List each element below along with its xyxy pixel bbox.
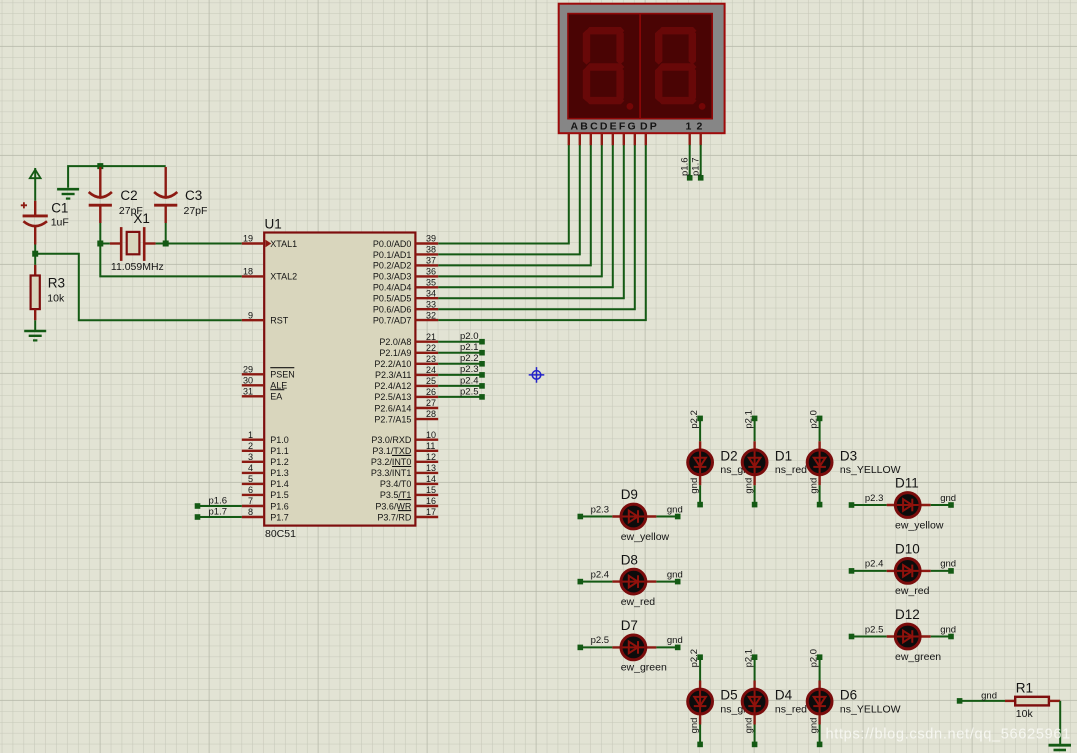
wire P0.5 to display pin 5 xyxy=(438,145,624,298)
svg-text:p2.1: p2.1 xyxy=(743,410,754,429)
wire P0.3 to display pin 3 xyxy=(438,145,602,277)
svg-text:p2.2: p2.2 xyxy=(689,410,700,429)
svg-text:p2.0: p2.0 xyxy=(808,410,819,429)
svg-text:11.059MHz: 11.059MHz xyxy=(111,261,164,273)
wire junction to U1 RST xyxy=(35,254,242,321)
svg-text:ALE: ALE xyxy=(270,381,287,391)
svg-text:23: 23 xyxy=(426,354,436,364)
svg-text:P0.7/AD7: P0.7/AD7 xyxy=(373,315,412,325)
svg-text:D2: D2 xyxy=(720,448,737,463)
svg-text:P3.1/TXD: P3.1/TXD xyxy=(372,446,412,456)
svg-text:p2.0: p2.0 xyxy=(808,649,819,668)
svg-text:25: 25 xyxy=(426,376,436,386)
pin 3 P1.2 xyxy=(242,461,264,463)
svg-text:C1: C1 xyxy=(51,200,68,215)
display left digit segments xyxy=(583,27,634,110)
svg-text:15: 15 xyxy=(426,485,436,495)
svg-text:29: 29 xyxy=(243,365,253,375)
svg-text:39: 39 xyxy=(426,234,436,244)
svg-text:P1.0: P1.0 xyxy=(270,435,289,445)
svg-text:p2.5: p2.5 xyxy=(460,386,479,397)
display pins (red stubs) xyxy=(569,133,701,145)
svg-text:p2.4: p2.4 xyxy=(865,559,884,570)
ground (below R3) xyxy=(24,331,46,340)
LED D8 ew_red xyxy=(580,581,612,583)
svg-text:4: 4 xyxy=(248,463,253,473)
svg-text:P0.6/AD6: P0.6/AD6 xyxy=(373,305,412,315)
svg-text:p2.3: p2.3 xyxy=(591,504,610,515)
svg-text:gnd: gnd xyxy=(940,493,956,504)
svg-text:17: 17 xyxy=(426,507,436,517)
pin 12 P3.2/INT0 xyxy=(415,461,438,463)
svg-text:9: 9 xyxy=(248,310,253,320)
svg-text:24: 24 xyxy=(426,365,436,375)
svg-text:D7: D7 xyxy=(621,618,638,633)
svg-text:28: 28 xyxy=(426,409,436,419)
terminal p2.4 xyxy=(479,383,485,389)
svg-text:34: 34 xyxy=(426,288,436,298)
svg-text:P2.2/A10: P2.2/A10 xyxy=(374,359,411,369)
LED D1 ns_red xyxy=(754,418,756,441)
svg-text:gnd: gnd xyxy=(667,635,683,646)
svg-text:p2.5: p2.5 xyxy=(865,624,884,635)
svg-text:P2.5/A13: P2.5/A13 xyxy=(374,392,411,402)
LED D7 ew_green xyxy=(580,646,612,648)
svg-text:gnd: gnd xyxy=(808,718,819,734)
junction top rail / C2 xyxy=(97,163,103,169)
svg-text:p2.2: p2.2 xyxy=(689,649,700,668)
wire C2 junction to U1 XTAL2 xyxy=(100,244,242,277)
svg-text:P3.4/T0: P3.4/T0 xyxy=(380,479,412,489)
svg-text:P3.3/INT1: P3.3/INT1 xyxy=(371,468,412,478)
svg-text:gnd: gnd xyxy=(689,478,700,494)
svg-text:ns_YELLOW: ns_YELLOW xyxy=(840,464,901,476)
crystal X1 xyxy=(110,227,156,261)
svg-text:P2.3/A11: P2.3/A11 xyxy=(375,370,411,380)
svg-text:ew_yellow: ew_yellow xyxy=(621,531,670,543)
pin 30 ALE xyxy=(242,384,264,386)
resistor R3 10k xyxy=(34,254,36,265)
pin 11 P3.1/TXD xyxy=(415,450,438,452)
wire C1 to junction xyxy=(34,245,36,254)
svg-text:16: 16 xyxy=(426,496,436,506)
svg-text:p2.1: p2.1 xyxy=(743,649,754,668)
LED D3 ns_YELLOW xyxy=(819,418,821,441)
junction C3/X1 (XTAL1 net... wait XTAL2) xyxy=(163,241,169,247)
svg-text:P3.5/T1: P3.5/T1 xyxy=(380,490,412,500)
wire U1 p1.7 to terminal xyxy=(198,516,242,518)
pin 7 P1.6 xyxy=(242,505,264,507)
op... microcontroller U1 80C51 body xyxy=(264,233,415,526)
svg-text:ew_green: ew_green xyxy=(895,651,941,663)
pin 34 P0.5/AD5 xyxy=(415,297,438,299)
svg-text:10k: 10k xyxy=(1016,708,1034,720)
wire P0.0 to display pin 0 xyxy=(438,145,569,244)
wire P0.7 to display pin 7 xyxy=(438,145,646,320)
wire top rail (gnd - C2 - C3) xyxy=(68,166,166,188)
svg-text:ew_green: ew_green xyxy=(621,662,667,674)
svg-text:37: 37 xyxy=(426,256,436,266)
power symbol (VCC arrow) xyxy=(30,168,41,201)
svg-text:35: 35 xyxy=(426,278,436,288)
svg-text:P2.7/A15: P2.7/A15 xyxy=(374,414,411,424)
svg-text:gnd: gnd xyxy=(689,718,700,734)
svg-text:p2.4: p2.4 xyxy=(460,375,479,386)
svg-text:P2.6/A14: P2.6/A14 xyxy=(374,403,411,413)
svg-text:P1.3: P1.3 xyxy=(270,468,289,478)
wire P2.5 to terminal xyxy=(438,396,482,398)
svg-text:https://blog.csdn.net/qq_56625: https://blog.csdn.net/qq_56625961 xyxy=(826,727,1071,743)
pin 39 P0.0/AD0 xyxy=(415,242,438,244)
svg-text:PSEN: PSEN xyxy=(270,370,295,380)
svg-text:ns_red: ns_red xyxy=(775,703,807,715)
pin 24 P2.3/A11 xyxy=(415,374,438,376)
pin 15 P3.5/T1 xyxy=(415,494,438,496)
svg-text:P2.1/A9: P2.1/A9 xyxy=(379,348,411,358)
pin 28 P2.7/A15 xyxy=(415,418,438,420)
junction C2/X1 (XTAL1 net) xyxy=(97,241,103,247)
svg-text:D9: D9 xyxy=(621,487,638,502)
svg-text:U1: U1 xyxy=(265,216,282,231)
wire P0.6 to display pin 6 xyxy=(438,145,635,309)
svg-text:11: 11 xyxy=(426,441,435,451)
svg-text:6: 6 xyxy=(248,485,253,495)
pin 17 P3.7/RD xyxy=(415,516,438,518)
svg-text:P1.4: P1.4 xyxy=(270,479,289,489)
pin 16 P3.6/WR xyxy=(415,505,438,507)
wire U1 p1.6 to terminal xyxy=(198,505,242,507)
svg-text:D6: D6 xyxy=(840,688,857,703)
pin 8 P1.7 xyxy=(242,516,264,518)
svg-text:80C51: 80C51 xyxy=(265,528,296,540)
svg-text:D4: D4 xyxy=(775,688,793,703)
wire P0.1 to display pin 1 xyxy=(438,145,580,255)
pin 23 P2.2/A10 xyxy=(415,363,438,365)
wire gnd terminal to R1 xyxy=(960,700,1005,702)
wire display pin2 to p1.7 terminal xyxy=(700,145,702,178)
LED D10 ew_red xyxy=(852,570,887,572)
pin 36 P0.3/AD3 xyxy=(415,275,438,277)
terminal gnd (R1 input) xyxy=(957,698,963,704)
wire P2.3 to terminal xyxy=(438,374,482,376)
svg-text:27pF: 27pF xyxy=(184,205,208,217)
pin 14 P3.4/T0 xyxy=(415,483,438,485)
pin 2 P1.1 xyxy=(242,450,264,452)
svg-text:3: 3 xyxy=(248,452,253,462)
terminal p1.7 (display side) xyxy=(698,175,704,181)
svg-text:p2.2: p2.2 xyxy=(460,353,479,364)
svg-text:ew_red: ew_red xyxy=(621,596,656,608)
svg-text:P3.0/RXD: P3.0/RXD xyxy=(371,435,412,445)
svg-text:RST: RST xyxy=(270,316,289,326)
svg-text:2: 2 xyxy=(248,441,253,451)
svg-text:P2.0/A8: P2.0/A8 xyxy=(379,337,411,347)
svg-text:p2.4: p2.4 xyxy=(591,569,610,580)
svg-text:p2.5: p2.5 xyxy=(591,635,610,646)
svg-text:R3: R3 xyxy=(48,276,65,291)
svg-text:7: 7 xyxy=(248,496,253,506)
pin 32 P0.7/AD7 xyxy=(415,319,438,321)
LED D4 ns_red xyxy=(754,657,756,680)
svg-text:D1: D1 xyxy=(775,448,792,463)
LED D12 ew_green xyxy=(852,636,887,638)
wire P2.2 to terminal xyxy=(438,363,482,365)
svg-text:1uF: 1uF xyxy=(51,217,69,229)
pin 13 P3.3/INT1 xyxy=(415,472,438,474)
svg-text:ns_red: ns_red xyxy=(775,464,807,476)
svg-text:ew_yellow: ew_yellow xyxy=(895,519,944,531)
svg-text:p1.6: p1.6 xyxy=(679,158,690,177)
svg-text:36: 36 xyxy=(426,267,436,277)
svg-text:XTAL2: XTAL2 xyxy=(270,272,297,282)
svg-text:P0.1/AD1: P0.1/AD1 xyxy=(373,250,412,260)
wire R1 to ground xyxy=(1059,701,1061,745)
svg-text:5: 5 xyxy=(248,474,253,484)
svg-text:D10: D10 xyxy=(895,542,920,557)
terminal p2.3 xyxy=(479,372,485,378)
svg-text:2: 2 xyxy=(697,121,703,133)
pin 38 P0.1/AD1 xyxy=(415,253,438,255)
terminal p2.0 xyxy=(479,339,485,345)
svg-text:1: 1 xyxy=(686,121,692,133)
svg-text:p1.7: p1.7 xyxy=(690,158,701,177)
svg-text:P3.6/WR: P3.6/WR xyxy=(375,501,412,511)
svg-text:P0.2/AD2: P0.2/AD2 xyxy=(373,261,412,271)
wire X1 right to U1 XTAL1 xyxy=(156,243,242,245)
ground (below R1) xyxy=(1049,745,1072,750)
pin 25 P2.4/A12 xyxy=(415,385,438,387)
svg-text:30: 30 xyxy=(243,376,253,386)
terminal p2.5 xyxy=(479,394,485,400)
wire display pin1 to p1.6 terminal xyxy=(689,145,691,178)
terminal p1.6 xyxy=(195,503,201,509)
svg-text:ew_red: ew_red xyxy=(895,585,930,597)
svg-text:C2: C2 xyxy=(120,188,137,203)
svg-text:D5: D5 xyxy=(720,688,737,703)
svg-text:gnd: gnd xyxy=(743,478,754,494)
pin 29 PSEN xyxy=(242,373,264,375)
svg-text:P3.2/INT0: P3.2/INT0 xyxy=(371,457,412,467)
svg-text:19: 19 xyxy=(243,234,253,244)
svg-text:P0.5/AD5: P0.5/AD5 xyxy=(373,294,412,304)
7-segment display DS1 xyxy=(559,4,725,134)
display digit panel xyxy=(568,14,712,119)
pin 37 P0.2/AD2 xyxy=(415,264,438,266)
svg-text:27: 27 xyxy=(426,398,436,408)
terminal p2.2 xyxy=(479,361,485,367)
svg-text:8: 8 xyxy=(248,507,253,517)
capacitor C3 27pF xyxy=(154,167,177,223)
pin 18 XTAL2 xyxy=(242,275,264,277)
svg-text:P0.3/AD3: P0.3/AD3 xyxy=(373,272,412,282)
svg-text:gnd: gnd xyxy=(940,559,956,570)
pin 6 P1.5 xyxy=(242,494,264,496)
pin 5 P1.4 xyxy=(242,483,264,485)
svg-text:1: 1 xyxy=(248,430,253,440)
svg-text:p2.3: p2.3 xyxy=(865,493,884,504)
svg-text:10: 10 xyxy=(426,430,436,440)
svg-text:ns_YELLOW: ns_YELLOW xyxy=(840,703,901,715)
svg-text:14: 14 xyxy=(426,474,436,484)
display right digit segments xyxy=(655,27,705,110)
pin 10 P3.0/RXD xyxy=(415,439,438,441)
pin 9 RST xyxy=(242,319,264,321)
svg-text:gnd: gnd xyxy=(940,624,956,635)
pin 27 P2.6/A14 xyxy=(415,407,438,409)
pin 22 P2.1/A9 xyxy=(415,352,438,354)
svg-text:P0.0/AD0: P0.0/AD0 xyxy=(373,239,412,249)
svg-text:XTAL1: XTAL1 xyxy=(270,239,297,249)
pin 33 P0.6/AD6 xyxy=(415,308,438,310)
LED D9 ew_yellow xyxy=(580,516,612,518)
LED D2 ns_green xyxy=(699,418,701,441)
svg-text:gnd: gnd xyxy=(981,690,997,701)
LED D11 ew_yellow xyxy=(852,504,887,506)
svg-text:18: 18 xyxy=(243,267,253,277)
svg-text:gnd: gnd xyxy=(667,569,683,580)
svg-text:p1.6: p1.6 xyxy=(209,495,228,506)
svg-text:gnd: gnd xyxy=(667,504,683,515)
wire junction to X1 left xyxy=(100,243,110,245)
svg-text:21: 21 xyxy=(426,332,436,342)
svg-text:gnd: gnd xyxy=(743,718,754,734)
svg-text:P1.1: P1.1 xyxy=(270,446,289,456)
svg-text:13: 13 xyxy=(426,463,436,473)
svg-text:P0.4/AD4: P0.4/AD4 xyxy=(373,283,412,293)
terminal p1.6 (display side) xyxy=(687,175,693,181)
wire P2.0 to terminal xyxy=(438,341,482,343)
svg-text:EA: EA xyxy=(270,392,282,402)
svg-text:22: 22 xyxy=(426,343,436,353)
ground (top, near C1) xyxy=(57,189,79,198)
wire P0.2 to display pin 2 xyxy=(438,145,591,266)
svg-text:31: 31 xyxy=(243,387,253,397)
junction node C1/R3/RST xyxy=(32,251,38,257)
svg-text:P1.6: P1.6 xyxy=(270,501,289,511)
svg-text:p2.0: p2.0 xyxy=(460,331,479,342)
pin 31 EA xyxy=(242,395,264,397)
pin 4 P1.3 xyxy=(242,472,264,474)
clock input arrow at XTAL1 xyxy=(266,240,272,248)
svg-text:D3: D3 xyxy=(840,448,857,463)
svg-text:10k: 10k xyxy=(47,292,65,304)
pin 1 P1.0 xyxy=(242,439,264,441)
svg-text:P3.7/RD: P3.7/RD xyxy=(377,512,412,522)
svg-text:33: 33 xyxy=(426,299,436,309)
svg-text:26: 26 xyxy=(426,387,436,397)
svg-text:ABCDEFG: ABCDEFG xyxy=(571,121,638,133)
svg-text:DP: DP xyxy=(640,121,659,133)
svg-text:p2.3: p2.3 xyxy=(460,364,479,375)
svg-text:R1: R1 xyxy=(1016,680,1033,695)
capacitor C2 27pF xyxy=(89,167,112,223)
svg-text:38: 38 xyxy=(426,245,436,255)
svg-text:32: 32 xyxy=(426,310,436,320)
svg-text:P2.4/A12: P2.4/A12 xyxy=(374,381,411,391)
wire P2.4 to terminal xyxy=(438,385,482,387)
blue origin crosshair marker xyxy=(529,367,545,383)
LED D5 ns_green xyxy=(699,657,701,680)
svg-text:C3: C3 xyxy=(185,188,202,203)
svg-text:P1.2: P1.2 xyxy=(270,457,289,467)
wire P2.1 to terminal xyxy=(438,352,482,354)
svg-text:P1.5: P1.5 xyxy=(270,490,289,500)
terminal p2.1 xyxy=(479,350,485,356)
svg-text:D8: D8 xyxy=(621,552,638,567)
pin 21 P2.0/A8 xyxy=(415,341,438,343)
svg-text:p2.1: p2.1 xyxy=(460,342,479,353)
svg-text:12: 12 xyxy=(426,452,436,462)
svg-text:P1.7: P1.7 xyxy=(270,512,289,522)
pin 26 P2.5/A13 xyxy=(415,396,438,398)
pin 35 P0.4/AD4 xyxy=(415,286,438,288)
svg-text:X1: X1 xyxy=(133,211,150,226)
pin 19 XTAL1 xyxy=(242,242,264,244)
wire P0.4 to display pin 4 xyxy=(438,145,613,287)
svg-text:p1.7: p1.7 xyxy=(209,506,228,517)
terminal p1.7 xyxy=(195,514,201,520)
svg-text:gnd: gnd xyxy=(808,478,819,494)
svg-text:D11: D11 xyxy=(895,476,919,491)
capacitor C1 (polarized) xyxy=(21,201,48,245)
LED D6 ns_YELLOW xyxy=(819,657,821,680)
svg-text:D12: D12 xyxy=(895,607,920,622)
